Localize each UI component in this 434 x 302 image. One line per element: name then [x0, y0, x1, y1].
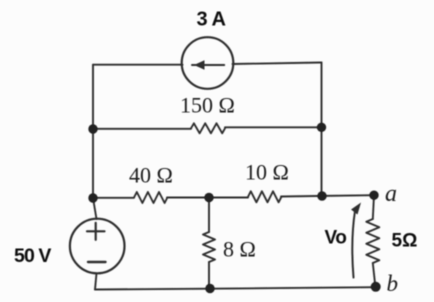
svg-text:8 Ω: 8 Ω: [223, 237, 256, 262]
resistor R 40ohm zigzag: [134, 192, 167, 203]
wire 8ohm upper: [208, 198, 210, 232]
svg-text:3 A: 3 A: [197, 9, 226, 31]
voltage source V1 circle: [70, 219, 125, 274]
resistor R 5ohm vertical zigzag: [366, 219, 379, 263]
wire source bottom to corner: [95, 273, 97, 289]
wire top-right horizontal: [233, 63, 322, 65]
wire 8ohm lower: [208, 262, 210, 289]
wire bottom: [95, 287, 376, 289]
svg-text:b: b: [387, 271, 399, 296]
wire right vertical: [321, 63, 323, 197]
node dot left-mid: [88, 193, 97, 202]
minus sign: [88, 261, 106, 263]
current source arrow: [192, 64, 224, 66]
wire 150ohm row right: [225, 126, 322, 128]
svg-text:5Ω: 5Ω: [392, 231, 418, 252]
node dot b: [371, 282, 381, 292]
wire source top: [93, 198, 97, 219]
svg-text:150 Ω: 150 Ω: [180, 93, 235, 118]
node dot bottom-mid: [205, 284, 214, 293]
resistor R 8ohm vertical zigzag: [203, 232, 215, 262]
svg-text:10 Ω: 10 Ω: [245, 160, 289, 185]
node dot left-150: [88, 124, 97, 133]
Vo arrowhead: [351, 203, 361, 215]
svg-text:a: a: [385, 181, 397, 207]
wire top-left horizontal: [93, 64, 183, 66]
svg-text:40 Ω: 40 Ω: [129, 163, 173, 188]
node dot a: [369, 191, 378, 200]
node dot mid: [204, 193, 213, 202]
node dot right-150: [317, 123, 326, 132]
svg-text:50 V: 50 V: [14, 245, 51, 267]
resistor R 150ohm zigzag: [191, 123, 225, 133]
wire left vertical: [92, 65, 94, 198]
wire mid row: 10ohm to node a: [281, 195, 374, 196]
wire mid row: 40ohm to 10ohm: [167, 197, 248, 199]
node dot right-mid: [317, 191, 326, 200]
wire 150ohm row left: [93, 128, 191, 130]
plus sign: [87, 223, 105, 240]
svg-text:Vo: Vo: [325, 228, 347, 249]
wire mid row: left node to 40ohm: [93, 197, 134, 199]
current source U1 circle: [182, 37, 234, 89]
wire node a to 5ohm: [373, 195, 374, 219]
resistor R 10ohm zigzag: [248, 191, 281, 202]
wire 5ohm to node b: [373, 263, 376, 286]
Vo arrow line: [352, 211, 355, 278]
